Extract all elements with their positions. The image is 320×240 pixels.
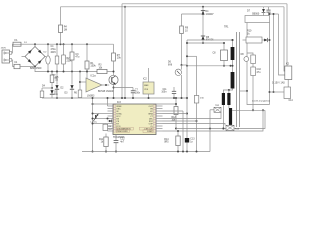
svg-text:10n: 10n (54, 94, 59, 96)
riser sense A (182, 111, 184, 153)
svg-text:10: 10 (185, 29, 188, 32)
lower rail text (52, 75, 58, 80)
thermistor R5 (50, 71, 59, 90)
diode D4 (201, 7, 214, 36)
bottom rail (82, 151, 210, 153)
wire primary top rail (187, 39, 234, 41)
svg-text:C14: C14 (289, 100, 294, 102)
svg-text:SB560: SB560 (252, 12, 260, 15)
wire sense mid (232, 109, 265, 111)
svg-text:IC3: IC3 (117, 101, 121, 104)
svg-text:REF: REF (144, 85, 149, 87)
wire top rail outer (122, 3, 287, 5)
wire aux tap (240, 90, 248, 92)
capacitor C10 (251, 64, 262, 112)
svg-text:DISCHARGE BL: DISCHARGE BL (117, 128, 131, 131)
svg-text:COMP: COMP (147, 131, 153, 133)
svg-text:1k: 1k (247, 32, 250, 35)
sense box TR2a (210, 105, 221, 112)
wire right drop A (269, 23, 271, 105)
diode D5 (201, 36, 214, 44)
diode on pin row (108, 120, 112, 123)
riser cs (196, 103, 198, 153)
svg-text:TR2: TR2 (215, 105, 220, 107)
svg-text:LM393: LM393 (87, 94, 95, 97)
svg-text:C1: C1 (14, 61, 18, 64)
wire from K1 pin1 to fuse (12, 44, 13, 53)
sense diode box (194, 96, 204, 104)
wire bridge bottom to lower rail (34, 67, 36, 73)
snubber loop (245, 16, 270, 23)
svg-text:C13: C13 (190, 139, 195, 141)
svg-text:4n7: 4n7 (120, 141, 125, 143)
wire fb E (163, 124, 226, 126)
wire pin row C (92, 123, 108, 125)
winding link (232, 60, 234, 72)
resistor R4 startup (59, 7, 68, 45)
svg-text:D4: D4 (206, 11, 210, 13)
primary winding (231, 39, 235, 60)
resistor R6 divider (74, 71, 82, 99)
wire right drop D (286, 4, 288, 66)
svg-text:1M: 1M (64, 28, 67, 31)
capacitor C2 (55, 43, 59, 72)
svg-text:220k: 220k (67, 61, 73, 63)
resistor R9b branch (40, 88, 44, 98)
riser sense B (209, 110, 211, 152)
wire fb F (176, 110, 265, 129)
wire IC top to R12 (156, 97, 177, 107)
svg-text:100n: 100n (135, 91, 141, 94)
wire drain L (181, 34, 183, 67)
resistor R9 gate (180, 14, 189, 34)
svg-text:R6: R6 (74, 93, 78, 95)
svg-text:D3: D3 (65, 93, 69, 95)
diode D2 (55, 71, 64, 100)
wire output link (287, 80, 289, 88)
diode D3 (65, 72, 75, 100)
capacitor C1 (14, 61, 20, 69)
zener D6 (168, 62, 183, 99)
wire secondary to fb (247, 91, 270, 105)
svg-text:D10: D10 (200, 97, 205, 99)
wire bridge plus stub (45, 56, 46, 58)
resistor R11 (99, 134, 108, 153)
wire pin row A (92, 113, 108, 115)
snubber diode branch (262, 7, 266, 16)
capacitor C12 (114, 135, 126, 153)
op-amp IC1a (86, 75, 102, 98)
capacitor C11 (161, 87, 176, 99)
svg-text:D2: D2 (61, 88, 65, 90)
wire right drop B2 (273, 13, 275, 93)
snubber2 text (247, 30, 252, 36)
wire startup bus outer (121, 4, 123, 99)
svg-text:R14: R14 (164, 139, 169, 141)
wire mid vertical bus (186, 40, 188, 138)
svg-text:470u: 470u (51, 49, 57, 51)
svg-text:R11: R11 (99, 139, 104, 141)
riser R14 (164, 130, 180, 153)
secondary diode D8 (241, 54, 249, 91)
sense box TR2b (226, 125, 240, 130)
snubber box C8 (212, 42, 227, 67)
svg-text:R2: R2 (67, 58, 71, 60)
svg-text:C11: C11 (162, 89, 167, 91)
aux winding (223, 72, 234, 93)
svg-text:2n2: 2n2 (108, 129, 112, 131)
svg-text:IC1a: IC1a (91, 75, 97, 78)
svg-text:B80C1500: B80C1500 (30, 67, 42, 70)
wire AC rail top (35, 43, 114, 45)
secondary box D9 (251, 55, 256, 64)
drain junction wire (182, 65, 232, 67)
regulator box (270, 87, 294, 102)
node bridge top (34, 43, 36, 46)
secondary branch tie (247, 53, 253, 55)
wire top rail inner (61, 6, 285, 8)
wire fb A (163, 110, 184, 112)
svg-text:IC2: IC2 (143, 78, 147, 81)
svg-text:C8: C8 (212, 52, 216, 55)
svg-text:150k: 150k (90, 65, 96, 68)
wire fb G (163, 109, 265, 131)
svg-text:PRIM CURR: PRIM CURR (117, 131, 128, 133)
riser cs upper (186, 55, 197, 95)
wire fuse to AC rail (21, 43, 35, 45)
svg-text:10: 10 (55, 79, 58, 82)
svg-text:1n: 1n (190, 141, 193, 143)
wire vcc to IC top (92, 103, 114, 105)
wire clamp stub (182, 13, 205, 15)
svg-text:1N4007: 1N4007 (206, 14, 215, 16)
svg-text:10k: 10k (117, 57, 122, 60)
controller IC3 (108, 101, 163, 139)
wire right drop C (283, 7, 286, 71)
subnet top wire (42, 86, 52, 89)
svg-text:230V: 230V (1, 48, 7, 50)
bulk capacitor C4 (46, 43, 57, 72)
wire fb C (163, 112, 222, 118)
wire fet drain rail (187, 42, 224, 44)
transistor Q1 (98, 75, 118, 93)
label TR1 (224, 26, 229, 29)
transformer core (237, 32, 240, 127)
inductor L1 riser (92, 97, 94, 153)
sense winding A (222, 93, 225, 130)
ground rail (42, 97, 187, 99)
svg-text:0R5: 0R5 (164, 142, 169, 144)
reference IC2 (143, 68, 154, 99)
wire right drop B (269, 13, 285, 75)
wire K1 pin2 to C1 (12, 60, 14, 67)
svg-text:to-hilfs triangleliste: to-hilfs triangleliste (252, 100, 271, 103)
svg-text:L1 10u: L1 10u (91, 121, 98, 123)
snubber cap branch (266, 7, 270, 16)
wire snubber2 left (243, 39, 247, 41)
svg-text:6V8: 6V8 (168, 64, 173, 66)
secondary rectifier text (247, 10, 260, 16)
resistor R3 in rail (97, 65, 114, 74)
resistor R2 (62, 43, 73, 72)
svg-text:F1: F1 (15, 38, 19, 42)
wire fb D (163, 120, 198, 122)
capacitor C3 (70, 43, 80, 72)
bridge rectifier B1 (24, 42, 47, 70)
wire pin row B with L1 (92, 118, 109, 120)
svg-text:D8: D8 (241, 54, 245, 56)
svg-text:C12: C12 (120, 139, 125, 141)
svg-text:C4: C4 (51, 46, 55, 48)
snubber2 diode (262, 38, 270, 42)
capacitor C7 (131, 88, 141, 100)
node bridge bottom (34, 66, 36, 68)
svg-text:400V: 400V (51, 52, 57, 54)
inductor L1 (91, 114, 99, 124)
wire emitter branch (113, 87, 134, 89)
resistor R12 (172, 107, 179, 130)
svg-text:D6: D6 (168, 62, 172, 64)
wire vcc bus inner (124, 6, 126, 99)
node snubber tap (202, 6, 204, 8)
resistor R7 collector (112, 44, 122, 75)
resistor R1 (85, 43, 96, 72)
connector K1 mains input (1, 48, 12, 63)
svg-text:D4: D4 (42, 86, 46, 88)
svg-text:47u: 47u (257, 71, 262, 74)
sense winding C (229, 108, 232, 125)
svg-text:K2: K2 (286, 63, 290, 66)
output text (272, 82, 285, 85)
wire secondary drop (246, 23, 248, 57)
svg-text:BC548 1N4148: BC548 1N4148 (98, 91, 114, 93)
svg-text:R3: R3 (99, 65, 103, 67)
wire lower rail (35, 71, 99, 73)
svg-text:D2: D2 (44, 52, 48, 54)
svg-text:47u: 47u (75, 56, 80, 59)
snubber2 box (246, 37, 262, 43)
svg-text:1k: 1k (101, 142, 104, 144)
wire opamp input plus (79, 81, 86, 83)
wire Q1 emitter (113, 85, 115, 100)
sense winding B (227, 90, 230, 108)
secondary gnd text (252, 100, 271, 103)
svg-text:D7: D7 (247, 10, 251, 13)
wire bridge minus stub (22, 56, 26, 58)
box on pin row C (103, 124, 113, 131)
svg-text:100n: 100n (161, 92, 167, 94)
output box K2 (285, 63, 292, 80)
diode D4 branch (50, 88, 59, 98)
wire fb B (163, 113, 188, 115)
wire C1 to bridge bottom (20, 66, 35, 68)
wire pin1 up (107, 97, 109, 106)
wire opamp out (102, 84, 109, 86)
wire opamp input minus (86, 71, 88, 90)
svg-text:0..15V / 1A5: 0..15V / 1A5 (272, 82, 285, 85)
capacitor C13 (185, 138, 195, 153)
fuse F1 (13, 38, 21, 46)
svg-text:TR1: TR1 (224, 26, 229, 29)
